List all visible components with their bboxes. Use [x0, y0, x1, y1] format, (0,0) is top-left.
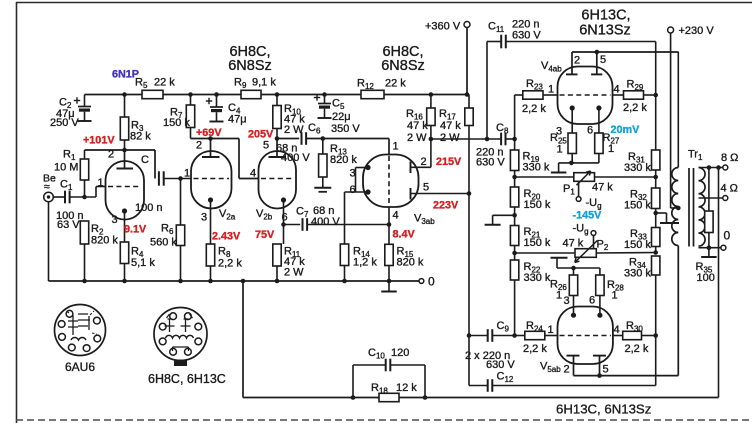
label -Ug (P2): [573, 223, 589, 237]
capacitor C11: [501, 35, 506, 49]
node gnd R6: [178, 279, 183, 284]
svg-text:1: 1: [393, 141, 399, 153]
label 205V: [248, 129, 274, 141]
svg-text:4 Ω: 4 Ω: [721, 183, 738, 195]
V1 grid (dashed): [108, 186, 141, 188]
svg-text:2 W: 2 W: [284, 267, 304, 279]
pin 6 V2b: [282, 212, 288, 224]
V3 grid (dashed vertical): [388, 156, 390, 206]
label R7: [163, 107, 190, 130]
wire supply rail R9-R12: [261, 94, 361, 96]
pin 1 V5: [548, 324, 554, 336]
node R20/R21: [512, 213, 517, 218]
potentiometer P1: [574, 171, 595, 185]
node C8/R19/R23: [512, 137, 517, 142]
V5 grid (dashed): [560, 335, 611, 337]
wire ground rail: [49, 280, 420, 282]
wire 8ohm tap: [699, 167, 723, 169]
pin 5 V2b: [263, 140, 269, 152]
label C7: [296, 205, 340, 228]
svg-text:215V: 215V: [436, 156, 462, 168]
node pin4/C7: [387, 222, 392, 227]
svg-text:3: 3: [564, 295, 570, 307]
node gnd feedback: [241, 279, 246, 284]
svg-text:6: 6: [282, 212, 288, 224]
node C9/R24: [512, 333, 517, 338]
resistor R27: [595, 133, 603, 163]
pin 3 V2a: [201, 212, 207, 224]
label C4: [228, 102, 247, 126]
node 8ohm/R35: [707, 165, 712, 170]
wire C6 to V3 grid: [306, 139, 389, 156]
resistor R35: [705, 168, 713, 248]
label P2: [563, 238, 609, 253]
svg-text:47 k: 47 k: [440, 120, 461, 132]
svg-text:10 M: 10 M: [54, 162, 78, 174]
V2b grid (dashed): [261, 178, 294, 180]
label R21: [524, 226, 551, 249]
terminal 0 (ground rail): [419, 279, 424, 284]
wire C12 right: [492, 385, 655, 387]
svg-text:5: 5: [263, 140, 269, 152]
label C2 value: [50, 108, 79, 129]
svg-text:2: 2: [196, 140, 202, 152]
label R14: [353, 246, 377, 269]
socket 6H8C/6H13C pinout: [154, 308, 207, 367]
pin 2 V3: [421, 156, 427, 168]
svg-text:150 k: 150 k: [524, 237, 551, 249]
node C10 right: [423, 395, 428, 400]
label R25: [550, 132, 567, 156]
node R19 bottom: [512, 175, 517, 180]
label C8: [496, 122, 509, 136]
resistor R14: [340, 244, 348, 281]
terminal 8ohm: [723, 165, 728, 170]
tube V1 envelope: [106, 161, 145, 220]
label R35: [696, 261, 715, 284]
resistor R34: [652, 256, 660, 386]
svg-text:1,2 k: 1,2 k: [353, 257, 377, 269]
socket 6AU6 pinout: [55, 305, 106, 356]
node rail/+360V: [465, 92, 470, 97]
wire C10 branch: [353, 365, 425, 398]
svg-text:22 k: 22 k: [385, 78, 406, 90]
wire V1 anode to C cap: [85, 150, 156, 179]
node R16/C8: [429, 137, 434, 142]
resistor R33: [652, 213, 660, 253]
svg-text:2: 2: [421, 156, 427, 168]
label R20: [524, 188, 551, 211]
pin 6 V3: [350, 184, 356, 196]
label 2.43V: [212, 231, 241, 243]
svg-text:3: 3: [112, 214, 118, 226]
label R19: [523, 151, 550, 174]
svg-text:4: 4: [614, 84, 620, 96]
node grid R1/R2: [82, 195, 87, 200]
node plate join: [595, 50, 600, 55]
resistor R15: [385, 244, 393, 281]
ground mid: [485, 215, 501, 225]
wire +360V drop: [466, 27, 468, 95]
svg-text:1: 1: [548, 84, 554, 96]
resistor R23: [523, 91, 543, 99]
svg-text:2: 2: [564, 364, 570, 376]
label C6: [308, 122, 321, 136]
pin 2 V1: [108, 149, 114, 161]
svg-text:12 k: 12 k: [396, 382, 417, 394]
label V2a: [219, 208, 236, 222]
label C9/C12 value: [465, 350, 515, 371]
label Be: [43, 173, 56, 194]
node R21/R22: [512, 251, 517, 256]
svg-text:22 k: 22 k: [154, 77, 175, 89]
V1 anode element: [117, 150, 134, 169]
wire V5 plates: [574, 375, 679, 377]
wire V4 cathode join: [559, 162, 599, 164]
label R32: [624, 189, 651, 212]
label 0 secondary: [724, 229, 731, 243]
svg-text:6H13C,: 6H13C,: [581, 8, 630, 24]
svg-text:150 k: 150 k: [624, 200, 651, 212]
resistor R8: [206, 244, 214, 281]
svg-text:250 V: 250 V: [50, 117, 79, 129]
pin 5 V5: [603, 364, 609, 376]
wire supply rail R5-R9: [163, 94, 241, 96]
P2 wiper terminal: [591, 231, 596, 249]
wire +69V node: [191, 139, 260, 179]
V3 plate element lower: [411, 188, 470, 200]
capacitor C4: [206, 95, 224, 122]
node gnd R14: [342, 279, 347, 284]
resistor R30: [613, 331, 656, 339]
tube V2a envelope: [191, 151, 232, 209]
V2b anode element: [269, 139, 287, 158]
label 9.1V: [124, 224, 147, 236]
pin 3 V5: [564, 295, 570, 307]
label R4: [131, 246, 155, 270]
ground symbol below R15: [381, 281, 397, 292]
svg-text:630 V: 630 V: [486, 359, 515, 371]
node V2a anode: [208, 136, 213, 141]
node rail/C5: [322, 92, 327, 97]
label R18: [371, 382, 417, 396]
resistor R3: [120, 95, 128, 151]
pin 2 V4: [574, 55, 580, 67]
svg-text:630 V: 630 V: [512, 30, 541, 42]
Tr1 core: [689, 168, 694, 247]
wire 4ohm tap: [699, 197, 723, 199]
label 6H8C 6H13C: [148, 372, 226, 386]
terminal 0 (secondary): [721, 245, 726, 250]
svg-text:6H13C, 6N13Sz: 6H13C, 6N13Sz: [556, 402, 651, 417]
label R30: [625, 320, 649, 355]
label +230 V: [679, 25, 715, 37]
pin 1 V1: [98, 177, 104, 189]
svg-text:22μ: 22μ: [332, 111, 351, 123]
potentiometer P2: [575, 241, 598, 263]
svg-text:2,2 k: 2,2 k: [522, 103, 546, 115]
svg-text:350 V: 350 V: [331, 123, 360, 135]
label C2: [59, 97, 72, 111]
svg-text:0: 0: [724, 229, 731, 243]
wire pin5 drop to C9: [468, 194, 470, 336]
wire C9 right: [492, 335, 514, 337]
tap bar: [660, 222, 679, 224]
svg-text:6: 6: [587, 125, 593, 137]
wire bracket to R14: [344, 192, 346, 244]
ground V4 cathode: [551, 163, 567, 173]
V4 grid (dashed): [560, 94, 611, 96]
node gnd R8: [208, 279, 213, 284]
svg-text:6N13Sz: 6N13Sz: [579, 23, 631, 39]
label P1: [563, 182, 613, 197]
svg-text:63 V: 63 V: [57, 219, 80, 231]
label R5: [135, 77, 175, 91]
svg-text:6: 6: [350, 184, 356, 196]
node R29/R31: [653, 93, 658, 98]
label R9: [234, 77, 276, 91]
label R31: [624, 151, 651, 174]
node rail/R16: [429, 92, 434, 97]
label 215V: [436, 156, 462, 168]
label R23: [522, 78, 546, 115]
svg-text:400 V: 400 V: [311, 216, 340, 228]
wire C7 to pin4 node: [307, 224, 389, 226]
node V1 anode: [122, 148, 127, 153]
V2a grid (dashed): [194, 178, 230, 180]
label 6H8C 6N8Sz (V3): [381, 44, 425, 74]
resistor R7: [186, 95, 194, 139]
label C5: [331, 98, 360, 136]
svg-text:330 k: 330 k: [524, 272, 551, 284]
svg-text:2: 2: [574, 55, 580, 67]
pin 4 V5: [614, 324, 620, 336]
node rail/C4: [214, 92, 219, 97]
svg-text:4: 4: [393, 210, 399, 222]
label Tr1: [688, 149, 703, 163]
label +69V: [196, 127, 222, 139]
wire bias rail 2 left: [515, 252, 575, 254]
label C1 value: [56, 210, 84, 231]
P1 wiper terminal: [576, 181, 581, 201]
pin 4 V4: [614, 84, 620, 96]
wire C11 right: [506, 42, 656, 96]
Tr1 secondary winding: [699, 167, 706, 246]
pin 1 V3: [393, 141, 399, 153]
svg-text:2 W: 2 W: [407, 132, 427, 144]
node gnd R2: [82, 279, 87, 284]
label R34: [624, 257, 651, 280]
resistor R17: [465, 95, 473, 194]
wire R29 to column: [644, 94, 656, 96]
label +101V: [83, 135, 115, 147]
svg-text:47 k: 47 k: [563, 238, 584, 250]
label R13: [330, 143, 357, 166]
capacitor C6: [302, 132, 307, 145]
label +360 V: [425, 21, 461, 33]
svg-text:6H8C, 6H13C: 6H8C, 6H13C: [148, 372, 226, 386]
wire 0 tap: [699, 247, 722, 249]
label R10: [284, 103, 305, 136]
resistor R12: [361, 90, 384, 98]
label 20mV: [611, 124, 641, 136]
tube V3 envelope: [363, 155, 419, 208]
terminal +360V: [464, 22, 470, 28]
node rail/R3: [122, 92, 127, 97]
resistor R20: [510, 177, 518, 215]
resistor R16: [427, 95, 435, 168]
svg-text:2,2 k: 2,2 k: [623, 102, 647, 114]
label C8 value: [476, 147, 505, 169]
pin 2 V2a: [196, 140, 202, 152]
wire feedback drop: [242, 281, 244, 398]
capacitor C8: [501, 133, 505, 146]
resistor R25: [568, 133, 576, 163]
wire C to V2a grid: [164, 178, 191, 180]
label R17: [439, 108, 461, 144]
label 75V: [255, 229, 275, 241]
node 8ohm/feedback: [716, 165, 721, 170]
svg-text:5: 5: [423, 182, 429, 194]
label R8: [218, 246, 242, 270]
pin 6 V5: [589, 295, 595, 307]
wire V5 cathode-res join: [557, 268, 600, 275]
label 6H13C 6N13Sz (bottom): [556, 402, 651, 417]
label C12: [497, 371, 514, 385]
resistor R31: [652, 150, 660, 177]
svg-text:8.4V: 8.4V: [393, 229, 416, 241]
node gnd R11: [275, 279, 280, 284]
wire C8 to R19 node: [506, 138, 515, 140]
wire bias rail 1 right: [595, 176, 656, 178]
label V3ab: [414, 213, 435, 227]
svg-text:47μ: 47μ: [228, 114, 247, 126]
wire cathode to C7: [284, 224, 301, 226]
wire bottom rail: [243, 397, 719, 399]
node C11 drop: [485, 137, 490, 142]
terminal +230V: [668, 27, 674, 33]
svg-text:330 k: 330 k: [624, 162, 651, 174]
terminal 4ohm: [723, 196, 728, 201]
capacitor C2: [74, 95, 92, 122]
svg-text:1: 1: [557, 144, 563, 156]
svg-text:6N8Sz: 6N8Sz: [381, 58, 425, 74]
terminal input jack: [44, 192, 54, 202]
wire C11 left: [487, 41, 501, 43]
pin 3 V4: [556, 126, 562, 138]
border frame left: [16, 2, 18, 423]
pin 5 V3: [423, 182, 429, 194]
pin 4 V3: [393, 210, 399, 222]
wire V4 plates top: [572, 51, 678, 53]
svg-text:2: 2: [108, 149, 114, 161]
svg-text:6N1P: 6N1P: [112, 69, 139, 81]
node rail/R10: [275, 92, 280, 97]
resistor R6: [176, 179, 184, 282]
node gnd R4: [122, 279, 127, 284]
wire C12 left: [469, 385, 488, 387]
capacitor C12: [488, 379, 493, 392]
label -Ug (P1): [586, 197, 602, 211]
svg-text:150 k: 150 k: [163, 117, 190, 129]
node V5 plate join: [597, 373, 602, 378]
wire 215V to C8: [431, 138, 501, 140]
node R31 bottom: [653, 175, 658, 180]
border frame bottom (dashed): [16, 419, 752, 421]
tube V5 envelope: [558, 307, 613, 365]
svg-text:5: 5: [603, 364, 609, 376]
node R26 join: [571, 266, 576, 271]
tube V2b envelope: [259, 151, 297, 209]
wire V2b anode to C6: [277, 138, 299, 140]
V5 plate elements: [567, 356, 607, 376]
wire tap step: [656, 213, 667, 223]
svg-text:1: 1: [548, 324, 554, 336]
resistor R24: [515, 331, 559, 339]
svg-text:560 k: 560 k: [150, 237, 177, 249]
wire R23 to V4 grid: [543, 94, 559, 96]
label R26: [550, 279, 567, 302]
pin 6 V4: [587, 125, 593, 137]
pin 1 V4: [548, 84, 554, 96]
svg-text:+101V: +101V: [83, 135, 115, 147]
svg-text:5: 5: [600, 54, 606, 66]
V2a anode element: [202, 139, 220, 158]
label 8.4V: [393, 229, 416, 241]
svg-text:205V: 205V: [248, 129, 274, 141]
node R33 bottom: [653, 250, 658, 255]
svg-text:47 k: 47 k: [592, 182, 613, 194]
label V2b: [256, 208, 273, 222]
svg-text:120: 120: [391, 347, 409, 359]
capacitor C10: [386, 359, 391, 372]
wire input ground drop: [48, 202, 50, 281]
label 6H13C 6N13Sz (top): [579, 8, 631, 39]
svg-text:47 k: 47 k: [407, 120, 428, 132]
label R2: [91, 223, 118, 247]
label R22: [524, 261, 551, 284]
wire to ground (mid): [493, 214, 515, 216]
svg-text:≈: ≈: [44, 181, 50, 193]
svg-text:-145V: -145V: [573, 210, 603, 222]
svg-text:9.1V: 9.1V: [124, 224, 147, 236]
svg-text:820 k: 820 k: [397, 257, 424, 269]
resistor R28: [596, 275, 604, 296]
wire bias rail 1 left: [515, 176, 574, 178]
svg-text:9,1 k: 9,1 k: [252, 77, 276, 89]
svg-text:+69V: +69V: [196, 127, 222, 139]
resistor R32: [652, 177, 660, 213]
svg-text:150 k: 150 k: [524, 199, 551, 211]
svg-text:2 W: 2 W: [440, 132, 460, 144]
label V4ab: [541, 60, 562, 74]
label C11: [488, 21, 505, 35]
capacitor C5: [314, 94, 332, 118]
node C9 left: [467, 333, 472, 338]
resistor R5: [142, 90, 163, 98]
label 8 ohm: [721, 152, 738, 164]
resistor R21: [510, 215, 518, 253]
resistor R18: [379, 393, 399, 401]
resistor R9: [241, 90, 261, 98]
resistor R1: [80, 150, 88, 197]
wire C9 to C12 drop: [468, 336, 470, 386]
wire bias rail 2 right: [596, 252, 655, 255]
label 6H8C 6N8Sz (V2): [228, 44, 272, 74]
resistor R26: [569, 275, 577, 296]
V3 plate element upper: [411, 162, 431, 174]
wire R23 column: [515, 95, 523, 150]
